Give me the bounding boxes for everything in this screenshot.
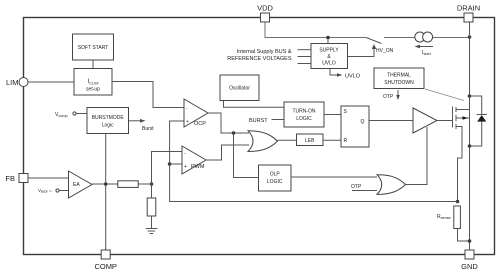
- svg-text:LOGIC: LOGIC: [267, 179, 283, 185]
- wire OR1 to LEB: [278, 139, 297, 141]
- svg-text:R: R: [344, 138, 348, 144]
- svg-text:Logic: Logic: [102, 123, 114, 129]
- driver: [413, 108, 437, 133]
- box OLP LOGIC: [259, 165, 292, 191]
- OR2 output up to driver: [406, 127, 428, 185]
- svg-text:TURN-ON: TURN-ON: [292, 109, 315, 115]
- wire: Rsense to GND rail: [458, 229, 470, 242]
- OCP output routing: [208, 113, 249, 133]
- svg-text:set-up: set-up: [86, 87, 100, 93]
- box BURSTMODE Logic: [87, 108, 129, 134]
- node: diode anode junction: [468, 144, 472, 148]
- pin VDD: [261, 13, 270, 22]
- svg-text:SUPPLY: SUPPLY: [319, 48, 339, 54]
- svg-text:Oscillator: Oscillator: [229, 85, 250, 91]
- wire: supply rail right of switch to drain vertical: [384, 37, 470, 39]
- svg-text:OTP: OTP: [383, 94, 394, 100]
- svg-text:EA: EA: [73, 182, 80, 188]
- svg-text:COMP: COMP: [94, 262, 117, 271]
- wire: ICLIM to OCP comparator: [112, 82, 184, 108]
- wire soft start to ICLIM: [92, 60, 94, 69]
- UVLO output: [330, 69, 339, 76]
- box SUPPLY & UVLO: [311, 44, 348, 69]
- svg-text:SOFT START: SOFT START: [78, 45, 109, 51]
- svg-text:+: +: [184, 164, 187, 170]
- node: sense junction: [456, 200, 460, 204]
- switch HV_ON blade: [366, 38, 382, 44]
- svg-text:BURSTMODE: BURSTMODE: [92, 115, 125, 121]
- divider node up to PWM input: [152, 152, 183, 185]
- resistor Rsense: [454, 206, 461, 229]
- resistor R1 horizontal: [118, 181, 138, 188]
- node: GND rail junction: [468, 239, 472, 243]
- svg-text:DRAIN: DRAIN: [457, 4, 480, 13]
- comparator OCP: [184, 99, 208, 127]
- node: diode cathode branch: [468, 94, 472, 98]
- resistor R2 vertical: [151, 184, 153, 198]
- svg-text:Internal Supply BUS &: Internal Supply BUS &: [237, 49, 292, 55]
- wire: HV_ON control from supply box: [348, 47, 375, 57]
- pin COMP: [101, 250, 110, 259]
- node: OCP output branch: [232, 131, 236, 135]
- svg-text:Q: Q: [361, 119, 365, 125]
- svg-text:REFERENCE VOLTAGES: REFERENCE VOLTAGES: [227, 56, 292, 62]
- EA output to divider: [92, 183, 118, 185]
- node: divider node: [150, 182, 154, 186]
- OR gate G2: [377, 175, 406, 195]
- drain vertical wire: [469, 22, 471, 250]
- svg-text:GND: GND: [461, 262, 478, 271]
- svg-text:SHUTDOWN: SHUTDOWN: [384, 80, 414, 86]
- svg-text:FB: FB: [5, 174, 15, 183]
- svg-text:PWM: PWM: [191, 164, 205, 170]
- PWM output routing: [206, 145, 249, 160]
- svg-text:BURST: BURST: [249, 118, 268, 124]
- box LEB: [297, 134, 324, 146]
- svg-text:HV_ON: HV_ON: [376, 48, 394, 54]
- box ICLIM set-up: [74, 69, 112, 96]
- svg-text:OCP: OCP: [194, 121, 206, 127]
- svg-text:VDD: VDD: [257, 4, 273, 13]
- wire: resistor R1 to divider node: [138, 183, 151, 185]
- OR gate G1: [248, 131, 278, 152]
- svg-text:LOGIC: LOGIC: [296, 116, 312, 122]
- svg-text:OTP: OTP: [351, 184, 362, 190]
- svg-text:Burst: Burst: [142, 126, 154, 132]
- node: drain rail top junction: [468, 35, 472, 39]
- wire: LIM pin to ICLIM: [28, 81, 74, 83]
- thermal sense diagonal: [425, 89, 464, 101]
- node: supply box top tap: [327, 38, 329, 44]
- node: sense branch to PWM: [168, 162, 172, 166]
- wire: sense to PWM input: [170, 163, 182, 165]
- svg-text:OLP: OLP: [270, 172, 281, 178]
- box SOFT START: [73, 34, 114, 60]
- pin FB: [19, 174, 28, 183]
- arrow under current source: [417, 46, 433, 48]
- pin LIM: [19, 78, 28, 87]
- svg-text:THERMAL: THERMAL: [387, 73, 411, 79]
- current sense line to comparators: [170, 121, 458, 202]
- svg-text:UVLO: UVLO: [322, 61, 336, 67]
- svg-text:LEB: LEB: [305, 138, 315, 144]
- ground: [146, 228, 158, 230]
- box Oscillator: [220, 75, 259, 101]
- box THERMAL SHUTDOWN: [374, 68, 424, 89]
- svg-text:+: +: [186, 119, 189, 125]
- supply inputs: [298, 49, 312, 51]
- power MOSFET: [452, 107, 454, 128]
- pin DRAIN: [464, 13, 473, 22]
- output Burst arrow: [129, 120, 143, 122]
- wire: VDD pin down and across top supply rail: [265, 22, 366, 38]
- flip-flop: [341, 106, 369, 147]
- pin GND: [465, 250, 474, 259]
- svg-text:LIM: LIM: [6, 78, 19, 87]
- wire: burstmode down to comp node: [105, 134, 107, 251]
- wire: FB pin to EA: [28, 177, 69, 179]
- svg-text:UVLO: UVLO: [345, 74, 361, 80]
- error amplifier EA: [69, 171, 93, 198]
- box TURN-ON LOGIC: [284, 102, 324, 127]
- wire: diode anode return: [470, 122, 482, 146]
- comparator PWM: [182, 146, 206, 174]
- branch to OLP logic: [234, 133, 259, 178]
- current source I_start: [415, 32, 425, 42]
- diode D1 (drain clamp): [477, 114, 487, 116]
- node: COMP junction: [104, 182, 108, 186]
